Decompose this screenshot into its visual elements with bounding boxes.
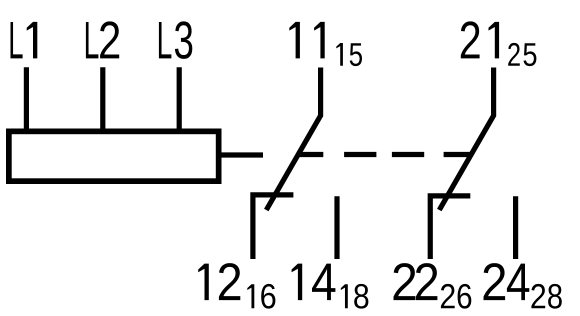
thermal overload relay body xyxy=(9,131,219,181)
terminal label L1 xyxy=(11,22,38,59)
terminal label L3 xyxy=(159,21,192,59)
terminal label 14 xyxy=(292,264,336,301)
wire from relay body to trip linkage xyxy=(219,152,263,157)
contact 1: terminal wire 11 and moving contact arm xyxy=(266,68,320,211)
contact 2: NC fixed contact seat and wire to terminal 22 xyxy=(430,196,470,259)
terminal label 18 (subscript) xyxy=(341,284,369,309)
wire L2 to relay body xyxy=(100,67,105,131)
contact 2: NO fixed contact wire to terminal 24 xyxy=(513,196,518,259)
wire L3 to relay body xyxy=(177,67,182,131)
terminal label 26 (subscript) xyxy=(441,284,471,309)
wire L1 to relay body xyxy=(24,67,29,131)
terminal label 15 (subscript) xyxy=(336,43,362,66)
terminal label 21 xyxy=(461,21,499,58)
terminal label 25 (subscript) xyxy=(508,43,536,66)
contact 1: NC fixed contact seat and wire to terminal 12 xyxy=(253,195,294,259)
terminal label 12 xyxy=(198,263,240,300)
terminal label 16 (subscript) xyxy=(247,284,275,309)
terminal label 24 xyxy=(484,263,530,300)
terminal label 11 xyxy=(289,22,324,59)
terminal label 28 (subscript) xyxy=(531,284,561,309)
linkage bar on contact 2 arm xyxy=(444,152,472,157)
mechanical linkage dash xyxy=(392,152,424,157)
contact 2: terminal wire 21 and moving contact arm xyxy=(439,68,493,211)
terminal label 22 xyxy=(394,263,438,300)
linkage bar on contact 1 arm xyxy=(297,152,324,157)
terminal label L2 xyxy=(86,21,119,58)
mechanical linkage dash xyxy=(344,152,376,157)
contact 1: NO fixed contact wire to terminal 14 xyxy=(334,196,339,259)
